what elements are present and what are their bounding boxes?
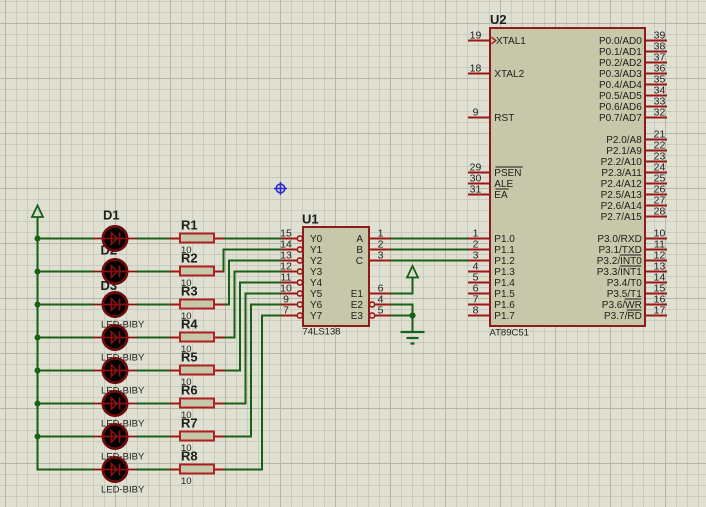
U2 pin 4 P1.3 xyxy=(468,271,490,273)
wire: rail to D6 xyxy=(38,403,94,405)
LED D3 xyxy=(93,292,137,316)
U1 pin 7 Y7 xyxy=(281,313,303,318)
svg-text:32: 32 xyxy=(654,107,666,119)
svg-text:XTAL2: XTAL2 xyxy=(494,69,524,80)
U1 pin 5 E3 xyxy=(370,313,392,318)
svg-text:EA: EA xyxy=(494,190,508,201)
svg-text:D1: D1 xyxy=(103,208,120,223)
U2 pin 34 P0.5/AD5 xyxy=(645,95,667,97)
svg-text:P2.7/A15: P2.7/A15 xyxy=(601,212,643,223)
wire: R7 to U1 Y6 xyxy=(225,305,282,437)
wire: R2 to U1 Y1 xyxy=(224,250,282,272)
svg-text:E3: E3 xyxy=(351,311,364,322)
LED D6 xyxy=(93,391,137,415)
svg-text:LED-BIBY: LED-BIBY xyxy=(101,484,145,495)
junction E2/E3 xyxy=(409,312,415,318)
U2 pin 24 P2.3/A11 xyxy=(645,172,667,174)
svg-text:P2.2/A10: P2.2/A10 xyxy=(601,157,643,168)
svg-text:PSEN: PSEN xyxy=(494,168,521,179)
U2 pin 27 P2.6/A14 xyxy=(645,205,667,207)
U2 pin 35 P0.4/AD4 xyxy=(645,84,667,86)
U2 pin 14 P3.4/T0 xyxy=(645,282,667,284)
wire: D1 to R1 xyxy=(137,238,171,240)
svg-text:B: B xyxy=(356,245,363,256)
svg-text:E2: E2 xyxy=(351,300,364,311)
U2 pin 19 XTAL1 xyxy=(468,40,490,42)
resistor R4 xyxy=(170,333,225,342)
overline PSEN xyxy=(496,166,523,168)
svg-text:P3.5/T1: P3.5/T1 xyxy=(607,289,642,300)
U2 pin 21 P2.0/A8 xyxy=(645,139,667,141)
LED D5 xyxy=(93,358,137,382)
wire: rail to D2 xyxy=(38,271,94,273)
svg-text:P2.0/A8: P2.0/A8 xyxy=(606,135,642,146)
svg-text:P3.6/WR: P3.6/WR xyxy=(602,300,642,311)
svg-text:P3.7/RD: P3.7/RD xyxy=(604,311,642,322)
svg-text:R4: R4 xyxy=(181,317,198,332)
svg-text:C: C xyxy=(356,256,363,267)
U1 pin 15 Y0 xyxy=(281,236,303,241)
U2 pin 16 P3.6/WR xyxy=(645,304,667,306)
svg-text:10: 10 xyxy=(181,476,192,487)
wire: left vertical rail xyxy=(37,217,39,470)
U2 pin 12 P3.2/INT0 xyxy=(645,260,667,262)
U2 pin 37 P0.2/AD2 xyxy=(645,62,667,64)
U2 pin 6 P1.5 xyxy=(468,293,490,295)
wire: R1 to U1 Y0 xyxy=(225,238,282,240)
svg-text:R3: R3 xyxy=(181,284,198,299)
resistor R8 xyxy=(170,465,225,474)
U2 pin 30 ALE xyxy=(468,183,490,185)
U1 pin 12 Y3 xyxy=(281,269,303,274)
junction on rail row D7 xyxy=(35,434,41,440)
svg-text:U1: U1 xyxy=(302,211,319,226)
svg-text:P2.4/A12: P2.4/A12 xyxy=(601,179,643,190)
wire: D2 to R2 xyxy=(137,271,171,273)
U2 pin 5 P1.4 xyxy=(468,282,490,284)
svg-text:P1.7: P1.7 xyxy=(494,311,515,322)
U1 pin 10 Y5 xyxy=(281,291,303,296)
overline WR xyxy=(625,298,642,300)
svg-text:P2.3/A11: P2.3/A11 xyxy=(601,168,642,179)
svg-text:7: 7 xyxy=(283,305,289,317)
LED D4 xyxy=(93,325,137,349)
svg-text:P0.1/AD1: P0.1/AD1 xyxy=(599,47,642,58)
svg-text:Y2: Y2 xyxy=(310,256,323,267)
U2 pin 22 P2.1/A9 xyxy=(645,150,667,152)
svg-text:R5: R5 xyxy=(181,350,198,365)
svg-text:P1.2: P1.2 xyxy=(494,256,515,267)
origin marker xyxy=(274,182,287,195)
wire: rail to D4 xyxy=(38,337,94,339)
U2 pin 7 P1.6 xyxy=(468,304,490,306)
wire: D4 to R4 xyxy=(137,337,171,339)
wire: D6 to R6 xyxy=(137,403,171,405)
IC U2 AT89C51 body xyxy=(490,28,645,326)
power terminal arrow (E1) xyxy=(407,266,418,278)
wire: R3 to U1 Y2 xyxy=(225,261,282,305)
svg-text:Y0: Y0 xyxy=(310,234,323,245)
U2 pin 23 P2.2/A10 xyxy=(645,161,667,163)
junction on rail row D2 xyxy=(35,269,41,275)
svg-text:19: 19 xyxy=(470,30,482,42)
U2 pin 15 P3.5/T1 xyxy=(645,293,667,295)
svg-text:P0.7/AD7: P0.7/AD7 xyxy=(599,113,642,124)
svg-text:P3.4/T0: P3.4/T0 xyxy=(607,278,642,289)
clock marker XTAL1 xyxy=(492,37,496,43)
junction on rail row D1 xyxy=(35,236,41,242)
resistor R6 xyxy=(170,399,225,408)
svg-text:RST: RST xyxy=(494,113,514,124)
U2 pin 3 P1.2 xyxy=(468,260,490,262)
wire: rail to D3 xyxy=(38,304,94,306)
U1 pin 3 C xyxy=(369,260,391,262)
svg-text:74LS138: 74LS138 xyxy=(303,327,341,338)
U1 pin 14 Y1 xyxy=(281,247,303,252)
svg-text:3: 3 xyxy=(378,250,384,262)
wire: U1 A/P1.0 xyxy=(391,238,468,240)
svg-text:P3.2/INT0: P3.2/INT0 xyxy=(597,256,642,267)
svg-text:R1: R1 xyxy=(181,218,198,233)
svg-text:P1.3: P1.3 xyxy=(494,267,515,278)
U2 pin 26 P2.5/A13 xyxy=(645,194,667,196)
wire: rail to D8 xyxy=(38,469,94,471)
resistor R5 xyxy=(170,366,225,375)
wire: R8 to U1 Y7 xyxy=(225,316,282,470)
svg-text:P0.2/AD2: P0.2/AD2 xyxy=(599,58,642,69)
svg-text:XTAL1: XTAL1 xyxy=(496,36,526,47)
svg-text:P2.5/A13: P2.5/A13 xyxy=(601,190,643,201)
svg-text:17: 17 xyxy=(654,305,666,317)
resistor R2 xyxy=(170,267,225,276)
junction on rail row D5 xyxy=(35,368,41,374)
svg-text:R6: R6 xyxy=(181,383,198,398)
overline EA xyxy=(496,188,509,190)
U1 pin 11 Y4 xyxy=(281,280,303,285)
U2 pin 18 XTAL2 xyxy=(468,73,490,75)
svg-text:P1.1: P1.1 xyxy=(494,245,515,256)
wire: rail bottom horizontal to D8 xyxy=(37,469,94,471)
wire: node to ground xyxy=(412,316,414,332)
wire: D8 to R8 xyxy=(137,469,171,471)
wire: U1 B/P1.1 xyxy=(391,249,468,251)
wire: R6 to U1 Y5 xyxy=(225,294,282,404)
resistor R3 xyxy=(170,300,225,309)
overline INT0 xyxy=(620,254,642,256)
svg-text:8: 8 xyxy=(473,305,479,317)
svg-text:Y4: Y4 xyxy=(310,278,323,289)
wire: rail to D1 xyxy=(38,238,94,240)
U2 pin 31 EA xyxy=(468,194,490,196)
wire: D3 to R3 xyxy=(137,304,171,306)
svg-text:Y6: Y6 xyxy=(310,300,323,311)
svg-text:18: 18 xyxy=(470,63,482,75)
wire: E2 to ground node xyxy=(391,305,413,316)
svg-text:U2: U2 xyxy=(490,12,507,27)
U2 pin 29 PSEN xyxy=(468,172,490,174)
U2 pin 33 P0.6/AD6 xyxy=(645,106,667,108)
U2 pin 10 P3.0/RXD xyxy=(645,238,667,240)
ground symbol xyxy=(401,332,425,344)
LED D7 xyxy=(93,424,137,448)
wire: rail to D7 xyxy=(38,436,94,438)
overline INT1 xyxy=(620,265,642,267)
svg-text:P1.6: P1.6 xyxy=(494,300,515,311)
wire: E3 to ground node xyxy=(391,315,413,317)
LED D2 xyxy=(93,259,137,283)
svg-text:Y1: Y1 xyxy=(310,245,323,256)
resistor R7 xyxy=(170,432,225,441)
U2 pin 32 P0.7/AD7 xyxy=(645,117,667,119)
svg-text:9: 9 xyxy=(473,107,479,119)
svg-text:31: 31 xyxy=(470,184,482,196)
U1 pin 4 E2 xyxy=(370,302,392,307)
U2 pin 38 P0.1/AD1 xyxy=(645,51,667,53)
U2 pin 36 P0.3/AD3 xyxy=(645,73,667,75)
U2 pin 2 P1.1 xyxy=(468,249,490,251)
svg-text:P0.6/AD6: P0.6/AD6 xyxy=(599,102,642,113)
svg-text:28: 28 xyxy=(654,206,666,218)
svg-text:P3.3/INT1: P3.3/INT1 xyxy=(597,267,642,278)
U1 pin 6 E1 xyxy=(369,293,391,295)
wire: rail to D5 xyxy=(38,370,94,372)
svg-text:R7: R7 xyxy=(181,416,198,431)
svg-text:R8: R8 xyxy=(181,449,198,464)
junction on rail row D6 xyxy=(35,401,41,407)
U2 pin 1 P1.0 xyxy=(468,238,490,240)
svg-text:P1.5: P1.5 xyxy=(494,289,515,300)
svg-text:P3.0/RXD: P3.0/RXD xyxy=(597,234,641,245)
IC U1 74LS138 body xyxy=(303,227,369,326)
svg-text:P2.1/A9: P2.1/A9 xyxy=(606,146,642,157)
svg-text:AT89C51: AT89C51 xyxy=(490,328,529,339)
U1 pin 9 Y6 xyxy=(281,302,303,307)
U1 pin 13 Y2 xyxy=(281,258,303,263)
junction on rail row D3 xyxy=(35,302,41,308)
svg-text:5: 5 xyxy=(378,305,384,317)
LED D1 xyxy=(93,226,137,250)
junction on rail row D4 xyxy=(35,335,41,341)
svg-text:P1.0: P1.0 xyxy=(494,234,515,245)
svg-text:P0.4/AD4: P0.4/AD4 xyxy=(599,80,642,91)
svg-text:A: A xyxy=(356,234,363,245)
LED D8 xyxy=(93,457,137,481)
wire: R4 to U1 Y3 xyxy=(225,272,282,338)
wire: U1 C/P1.2 xyxy=(391,260,468,262)
U2 pin 39 P0.0/AD0 xyxy=(645,40,667,42)
svg-text:R2: R2 xyxy=(181,251,198,266)
svg-text:Y7: Y7 xyxy=(310,311,323,322)
U2 pin 13 P3.3/INT1 xyxy=(645,271,667,273)
U2 pin 11 P3.1/TXD xyxy=(645,249,667,251)
svg-text:P0.0/AD0: P0.0/AD0 xyxy=(599,36,642,47)
U1 pin 2 B xyxy=(369,249,391,251)
U2 pin 8 P1.7 xyxy=(468,315,490,317)
U2 pin 9 RST xyxy=(468,117,490,119)
svg-text:P1.4: P1.4 xyxy=(494,278,515,289)
U2 pin 25 P2.4/A12 xyxy=(645,183,667,185)
svg-text:P2.6/A14: P2.6/A14 xyxy=(601,201,643,212)
resistor R1 xyxy=(170,234,225,243)
svg-text:ALE: ALE xyxy=(494,179,513,190)
svg-text:E1: E1 xyxy=(351,289,364,300)
svg-text:P3.1/TXD: P3.1/TXD xyxy=(598,245,641,256)
overline RD xyxy=(627,309,641,311)
wire: D5 to R5 xyxy=(137,370,171,372)
svg-text:Y3: Y3 xyxy=(310,267,323,278)
svg-text:P0.3/AD3: P0.3/AD3 xyxy=(599,69,642,80)
svg-text:Y5: Y5 xyxy=(310,289,323,300)
U1 pin 1 A xyxy=(369,238,391,240)
svg-text:P0.5/AD5: P0.5/AD5 xyxy=(599,91,642,102)
wire: E1 to power xyxy=(391,278,413,294)
wire: R5 to U1 Y4 xyxy=(225,283,282,371)
power terminal arrow (left rail) xyxy=(32,206,43,218)
U2 pin 28 P2.7/A15 xyxy=(645,216,667,218)
wire: D7 to R7 xyxy=(137,436,171,438)
U2 pin 17 P3.7/RD xyxy=(645,315,667,317)
